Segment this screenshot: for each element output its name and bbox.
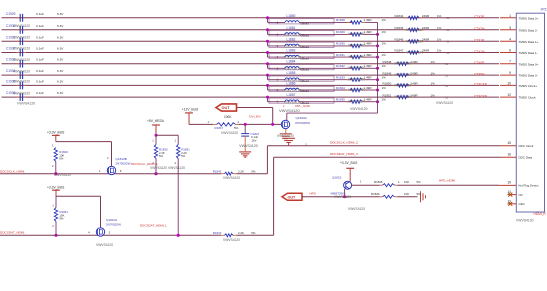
resistor R1831 2.2K 5% (SDA pullup)	[175, 139, 191, 236]
svg-text:51: 51	[445, 84, 448, 88]
svg-text:DDC Clock: DDC Clock	[519, 144, 534, 148]
svg-text:1: 1	[398, 180, 400, 184]
capacitor C1933 0.1uF 6.3V	[6, 58, 64, 68]
svg-text:1%: 1%	[431, 93, 436, 97]
svg-text:Q1823: Q1823	[332, 175, 342, 179]
svg-text:1.49R: 1.49R	[364, 42, 373, 46]
resistor R1632 1.49R 1%	[336, 64, 386, 70]
node rail junction row 3	[376, 44, 379, 47]
node junction row 1	[266, 16, 269, 19]
resistor R1845 10K 5% (HPD)	[374, 180, 421, 187]
wire TMDS row 3 net CTX1P	[2, 40, 500, 42]
capacitor C1935 0.1uF 6.3V	[6, 79, 64, 89]
power +3.3V_BUS (Q1810B)	[52, 134, 60, 136]
wire TMDS row 2 net CTX2N	[2, 29, 500, 31]
svg-text:NC: NC	[519, 193, 524, 197]
svg-text:L1884: L1884	[287, 60, 296, 64]
svg-text:51: 51	[447, 51, 450, 55]
wire Q1823 base from HPD row B	[344, 189, 346, 197]
svg-text:15: 15	[507, 141, 511, 145]
wire TMDS row 7 net CTXCKP	[2, 84, 500, 86]
svg-text:Q1820A: Q1820A	[296, 116, 308, 120]
svg-text:VWVS4120: VWVS4120	[223, 176, 240, 180]
svg-text:1.49R: 1.49R	[364, 98, 373, 102]
svg-text:R1845: R1845	[395, 26, 404, 30]
svg-text:1%: 1%	[437, 49, 442, 53]
svg-text:R1843: R1843	[213, 169, 222, 173]
svg-text:4: 4	[509, 37, 511, 41]
wire DDCSDAT_HDMI row	[0, 234, 221, 236]
svg-text:TMDS Data 2+: TMDS Data 2+	[519, 16, 539, 20]
svg-text:51: 51	[445, 62, 448, 66]
node rail junction row 2	[376, 33, 379, 36]
wire +3.3V to R1841 and Q1810A drain	[55, 190, 57, 196]
svg-text:DDC Data: DDC Data	[519, 156, 533, 160]
wire pin stub 15	[500, 145, 516, 147]
pin 14 NC crossed	[507, 190, 516, 196]
svg-text:+3.3V_BUS: +3.3V_BUS	[47, 185, 65, 189]
svg-text:5%: 5%	[181, 154, 186, 158]
svg-text:HDMI_R: HDMI_R	[534, 212, 547, 216]
node rail junction row 7	[376, 89, 379, 92]
svg-text:1.49R: 1.49R	[364, 86, 373, 90]
svg-text:2N7002DW: 2N7002DW	[295, 121, 310, 125]
svg-text:CTX0P: CTX0P	[474, 61, 484, 65]
wire pin stub 9	[500, 74, 516, 76]
svg-text:1%: 1%	[382, 86, 387, 90]
svg-text:R1842: R1842	[213, 231, 222, 235]
svg-text:0.1uF: 0.1uF	[36, 58, 44, 62]
svg-text:R1847: R1847	[395, 49, 404, 53]
node junction base	[343, 195, 346, 198]
svg-text:CTXCKN: CTXCKN	[474, 94, 488, 98]
svg-text:1%: 1%	[437, 14, 442, 18]
svg-text:0.1uF: 0.1uF	[36, 35, 44, 39]
svg-text:10K: 10K	[404, 192, 409, 196]
wire DPL_GND horizontal to Q1820A drain	[287, 112, 378, 114]
svg-text:L1886: L1886	[287, 81, 296, 85]
svg-text:6.3V: 6.3V	[57, 24, 64, 28]
svg-text:CTX1P: CTX1P	[474, 39, 484, 43]
svg-text:2: 2	[175, 161, 177, 165]
svg-text:R1848: R1848	[383, 60, 392, 64]
resistor R1844 249R 1%	[395, 14, 450, 20]
svg-text:uBead: uBead	[301, 79, 310, 83]
svg-text:Q1810B: Q1810B	[116, 157, 127, 161]
power +3.3V_BUS (Q1810A)	[52, 189, 60, 191]
svg-text:VWVS4120: VWVS4120	[394, 73, 411, 77]
wire stub down to bead row 1	[267, 18, 269, 23]
wire TMDS row 4 net CTX1N	[2, 52, 500, 54]
ferrite bead L1886 uBead	[268, 81, 353, 93]
ground on DDC SCL (shield)	[282, 138, 295, 146]
svg-text:2.2K: 2.2K	[238, 231, 244, 235]
wire pin stub 4	[500, 40, 516, 42]
svg-text:1: 1	[99, 169, 101, 173]
svg-text:1%: 1%	[382, 98, 387, 102]
node rail junction row 8	[376, 100, 379, 103]
svg-text:uBead: uBead	[301, 22, 310, 26]
svg-text:uBead: uBead	[301, 34, 310, 38]
svg-text:1: 1	[208, 120, 210, 124]
svg-text:1: 1	[360, 180, 362, 184]
net flag OUT (HPD from source)	[282, 193, 302, 200]
resistor R1830 2.2K 5% (SCL pullup)	[152, 135, 168, 174]
svg-text:R1846: R1846	[371, 192, 380, 196]
svg-text:249R: 249R	[422, 26, 430, 30]
svg-text:TMDS Clock-: TMDS Clock-	[519, 96, 537, 100]
svg-text:HPD: HPD	[310, 192, 317, 196]
svg-text:Q1810A: Q1810A	[106, 218, 118, 222]
ground rotated (HPD row B)	[421, 191, 426, 202]
svg-text:249R: 249R	[422, 14, 430, 18]
svg-text:HPD_HDMI: HPD_HDMI	[439, 179, 455, 183]
resistor R1634 1.49R 1%	[336, 86, 386, 92]
wire pin stub 16	[500, 156, 516, 158]
svg-text:10K: 10K	[404, 180, 409, 184]
svg-text:10: 10	[507, 81, 511, 85]
resistor R1817 100K 5%	[208, 115, 240, 135]
svg-text:2: 2	[107, 156, 109, 160]
node junction R1831 / SDA	[177, 234, 180, 237]
ferrite bead L1887 uBead	[268, 93, 353, 105]
svg-text:DDCSCLK_HDMI_C: DDCSCLK_HDMI_C	[330, 140, 359, 144]
ferrite bead L1885 uBead	[268, 71, 353, 83]
svg-text:CTXCKP: CTXCKP	[474, 83, 487, 87]
capacitor C1827 0.1uF 16V	[241, 124, 259, 151]
wire Q1820A source to ground	[285, 129, 287, 134]
svg-text:6.3V: 6.3V	[57, 69, 64, 73]
capacitor C1931 0.1uF 6.3V	[6, 35, 64, 45]
svg-text:249R: 249R	[411, 60, 419, 64]
resistor R1840 10K 5%	[52, 143, 68, 173]
svg-text:VWVS4120: VWVS4120	[13, 91, 30, 95]
svg-text:VWVS4120: VWVS4120	[394, 62, 411, 66]
svg-text:VWVS4120: VWVS4120	[239, 144, 258, 148]
svg-text:R1851: R1851	[383, 93, 392, 97]
svg-text:0.1uF: 0.1uF	[36, 91, 44, 95]
svg-text:JP21: JP21	[541, 7, 547, 11]
node junction R1840 / SCL	[54, 172, 57, 175]
svg-text:+12V_BUS: +12V_BUS	[182, 108, 199, 112]
transistor Q1810A 2N7002DW	[88, 218, 121, 236]
svg-text:51: 51	[447, 28, 450, 32]
svg-text:6.3V: 6.3V	[57, 35, 64, 39]
resistor R1635 1.49R 1%	[336, 98, 386, 104]
wire stub down to bead row 5	[267, 64, 269, 69]
svg-text:6: 6	[509, 49, 511, 53]
wire HPD row B	[302, 196, 380, 198]
svg-text:VWVS4120: VWVS4120	[13, 47, 30, 51]
svg-text:+3.3V_BUS: +3.3V_BUS	[47, 131, 65, 135]
svg-text:VWVS4120: VWVS4120	[17, 101, 35, 105]
wire termination rail DPL_GND	[377, 22, 379, 113]
svg-text:L1887: L1887	[287, 93, 296, 97]
wire pin stub 12	[500, 96, 516, 98]
svg-text:DDCSDAT_HDMI_L: DDCSDAT_HDMI_L	[140, 223, 167, 227]
svg-text:OUT: OUT	[288, 195, 297, 199]
power +3.3V_BUS (Q1823)	[346, 167, 354, 169]
svg-text:1%: 1%	[431, 82, 436, 86]
svg-text:1.49R: 1.49R	[364, 30, 373, 34]
svg-text:DDCSDAT_HDMI_C: DDCSDAT_HDMI_C	[330, 152, 359, 156]
wire pin stub 1	[500, 17, 516, 19]
svg-text:5%: 5%	[59, 157, 64, 161]
svg-text:DVI_EN: DVI_EN	[249, 114, 260, 118]
transistor Q1810B 2N7002DW	[99, 156, 131, 175]
svg-text:VWVS4120: VWVS4120	[284, 89, 301, 93]
svg-text:R1845: R1845	[374, 180, 383, 184]
resistor R1843 2.2K 5% (SCL series)	[213, 169, 256, 175]
svg-text:51: 51	[445, 96, 448, 100]
ground below Q1820A	[280, 133, 292, 135]
node junction row 6	[266, 74, 269, 77]
svg-text:R1629: R1629	[336, 30, 345, 34]
svg-text:0.1uF: 0.1uF	[36, 12, 44, 16]
wire pin stub 10	[500, 84, 516, 86]
svg-text:R1634: R1634	[336, 86, 345, 90]
resistor R1849 249R 1%	[383, 71, 449, 77]
svg-text:VWVS4120: VWVS4120	[13, 69, 30, 73]
resistor R1631 1.49R 1%	[336, 53, 386, 59]
svg-text:uBead: uBead	[301, 56, 310, 60]
svg-text:7: 7	[509, 60, 511, 64]
svg-text:L1882: L1882	[287, 37, 296, 41]
svg-text:VWVS4120: VWVS4120	[13, 80, 30, 84]
svg-text:R1844: R1844	[395, 14, 404, 18]
capacitor C1929 0.1uF 6.3V	[6, 12, 64, 22]
svg-text:6.3V: 6.3V	[57, 79, 64, 83]
svg-text:R1630: R1630	[336, 42, 345, 46]
wire DDCSCLK_HDMI row	[0, 173, 221, 175]
power +5V_HESA	[152, 124, 160, 126]
svg-text:VWVS4120: VWVS4120	[334, 195, 351, 199]
wire stub down to bead row 6	[267, 75, 269, 80]
node junction DVI_EN / OUT	[271, 123, 274, 126]
svg-text:1%: 1%	[437, 38, 442, 42]
ferrite bead L1882 uBead	[268, 37, 353, 49]
wire TMDS row 6 net CTX0N	[2, 74, 500, 76]
resistor R1845 249R 1%	[395, 26, 450, 32]
connector JP21 HDMI	[516, 7, 547, 212]
svg-text:5%: 5%	[234, 126, 239, 130]
wire stub down to bead row 2	[267, 30, 269, 35]
svg-text:R1849: R1849	[383, 71, 392, 75]
node rail junction row 6	[376, 78, 379, 81]
power +12V_BUS	[185, 112, 193, 114]
svg-text:1: 1	[152, 139, 154, 143]
svg-text:2N7002DW: 2N7002DW	[116, 161, 131, 165]
svg-text:249R: 249R	[422, 49, 430, 53]
svg-text:VWVS4120: VWVS4120	[13, 58, 30, 62]
svg-text:uBead: uBead	[301, 45, 310, 49]
net flag OUT (DVI_EN gate)	[237, 107, 273, 109]
svg-text:L1885: L1885	[287, 71, 296, 75]
svg-text:9: 9	[509, 71, 511, 75]
svg-text:2.2K: 2.2K	[238, 169, 244, 173]
ferrite bead L1881 uBead	[268, 26, 353, 38]
svg-text:1%: 1%	[382, 42, 387, 46]
svg-text:1: 1	[509, 14, 511, 18]
wire +3.3V to Q1823	[349, 168, 351, 181]
svg-text:0.1uF: 0.1uF	[36, 79, 44, 83]
svg-text:4: 4	[88, 231, 90, 235]
svg-text:R1635: R1635	[336, 98, 345, 102]
svg-text:5%: 5%	[251, 231, 256, 235]
resistor R1848 249R 1%	[383, 60, 449, 66]
capacitor C1936 0.1uF 6.3V	[6, 91, 64, 101]
svg-text:VWVS4120: VWVS4120	[13, 36, 30, 40]
svg-text:2: 2	[238, 120, 240, 124]
node junction row 2	[266, 28, 269, 31]
svg-text:CTX1N: CTX1N	[474, 50, 485, 54]
svg-text:5%: 5%	[60, 217, 65, 221]
wire TMDS row 5 net CTX0P	[2, 63, 500, 65]
wire +3.3V to R1840 and Q1810B drain	[55, 135, 57, 141]
svg-text:VWVS4120: VWVS4120	[279, 108, 300, 113]
svg-text:2N7002DW: 2N7002DW	[106, 222, 121, 226]
node junction row 5	[266, 62, 269, 65]
svg-text:VWVS4120: VWVS4120	[277, 134, 294, 138]
svg-text:CTX2N: CTX2N	[474, 27, 485, 31]
svg-text:1.49R: 1.49R	[364, 64, 373, 68]
svg-text:51: 51	[447, 40, 450, 44]
wire stub down to bead row 8	[267, 97, 269, 102]
svg-text:249R: 249R	[411, 82, 419, 86]
svg-text:VWVS4120: VWVS4120	[96, 243, 113, 247]
svg-text:249R: 249R	[411, 71, 419, 75]
svg-text:1%: 1%	[382, 76, 387, 80]
svg-text:1%: 1%	[382, 30, 387, 34]
svg-text:TMDS Data 0+: TMDS Data 0+	[519, 62, 539, 66]
svg-text:100K: 100K	[224, 115, 232, 119]
resistor R1851 249R 1%	[383, 93, 449, 99]
node junction R1841 / SDA	[54, 234, 57, 237]
svg-text:1.49R: 1.49R	[364, 76, 373, 80]
node junction row 3	[266, 40, 269, 43]
node rail junction row 4	[376, 56, 379, 59]
svg-text:Hot Plug Detect: Hot Plug Detect	[518, 184, 538, 188]
svg-text:1: 1	[175, 139, 177, 143]
svg-text:CTX2P: CTX2P	[474, 15, 484, 19]
svg-text:DDCSCLK_HDMI: DDCSCLK_HDMI	[0, 169, 25, 173]
svg-text:5%: 5%	[251, 169, 256, 173]
wire TMDS row 8 net CTXCKN	[2, 96, 500, 98]
svg-text:249R: 249R	[411, 93, 419, 97]
svg-text:12: 12	[507, 93, 511, 97]
svg-text:1%: 1%	[431, 71, 436, 75]
resistor R1842 2.2K 5% (SDA series)	[213, 231, 256, 237]
svg-text:16: 16	[507, 153, 511, 157]
svg-text:TMDS Data 1+: TMDS Data 1+	[519, 40, 539, 44]
wire SDA to connector	[237, 234, 274, 236]
svg-text:VWVS4120: VWVS4120	[223, 238, 240, 242]
svg-text:VWVS4120: VWVS4120	[406, 28, 423, 32]
resistor R1847 249R 1%	[395, 49, 450, 55]
svg-text:51: 51	[445, 74, 448, 78]
wire HPD row to connector	[352, 184, 380, 186]
svg-text:0.1uF: 0.1uF	[36, 69, 44, 73]
svg-text:R1850: R1850	[383, 82, 392, 86]
wire stub down to bead row 4	[267, 53, 269, 58]
svg-text:VWVS4120: VWVS4120	[13, 24, 30, 28]
svg-text:19: 19	[507, 181, 511, 185]
svg-text:VWVS4120 VWVS4120: VWVS4120 VWVS4120	[150, 166, 185, 170]
svg-text:2: 2	[52, 164, 54, 168]
svg-text:5%: 5%	[417, 180, 422, 184]
svg-text:VWVS4120: VWVS4120	[516, 219, 534, 223]
svg-text:1.49R: 1.49R	[364, 53, 373, 57]
svg-text:3: 3	[509, 26, 511, 30]
capacitor C1932 0.1uF 6.3V	[6, 47, 64, 57]
svg-text:6.3V: 6.3V	[57, 47, 64, 51]
svg-text:1: 1	[52, 203, 54, 207]
svg-text:VWVS4120: VWVS4120	[348, 207, 365, 211]
resistor R1629 1.49R 1%	[336, 30, 386, 36]
svg-text:CTX0N: CTX0N	[474, 72, 485, 76]
svg-text:51: 51	[447, 16, 450, 20]
node junction row 8	[266, 96, 269, 99]
svg-text:1: 1	[52, 143, 54, 147]
node junction row 4	[266, 51, 269, 54]
wire pin stub 7	[500, 63, 516, 65]
node junction +5V	[155, 134, 158, 137]
node junction row 7	[266, 84, 269, 87]
transistor Q1820A 2N7002DW	[281, 116, 310, 128]
svg-text:1%: 1%	[437, 26, 442, 30]
svg-text:C1929: C1929	[6, 12, 16, 16]
transistor Q1823 MMBT3904	[331, 175, 363, 195]
node junction DVI_EN / C1827	[244, 123, 247, 126]
svg-text:2: 2	[52, 224, 54, 228]
capacitor C1934 0.1uF 6.3V	[6, 69, 64, 79]
wire stub down to bead row 7	[267, 85, 269, 90]
ferrite bead L1883 uBead	[268, 49, 353, 61]
svg-text:R1846: R1846	[395, 38, 404, 42]
wire stub down to bead row 3	[267, 41, 269, 46]
svg-text:+3.3V_BUS: +3.3V_BUS	[340, 161, 358, 165]
svg-text:0.1uF: 0.1uF	[36, 47, 44, 51]
node junction R1830 / SCL	[154, 172, 157, 175]
wire +12V to R1817	[188, 113, 190, 125]
svg-text:VWVS4120: VWVS4120	[406, 51, 423, 55]
svg-text:uBead: uBead	[301, 89, 310, 93]
svg-text:6.3V: 6.3V	[57, 91, 64, 95]
svg-text:5%: 5%	[159, 154, 164, 158]
svg-text:6.3V: 6.3V	[57, 12, 64, 16]
svg-text:R1632: R1632	[336, 64, 345, 68]
svg-text:VWVS4120: VWVS4120	[394, 83, 411, 87]
svg-text:1%: 1%	[382, 18, 387, 22]
svg-text:0.1uF: 0.1uF	[36, 24, 44, 28]
resistor R1846 10K 5% (HPD pulldown)	[371, 192, 421, 198]
svg-text:VWVS4120: VWVS4120	[394, 95, 411, 99]
svg-text:DDCSDAT_HDMI: DDCSDAT_HDMI	[0, 231, 24, 235]
svg-text:TMDS Data 0-: TMDS Data 0-	[519, 74, 538, 78]
svg-text:R1628: R1628	[336, 18, 345, 22]
wire TMDS row 1 net CTX2P	[2, 17, 500, 19]
svg-text:3: 3	[109, 231, 111, 235]
svg-text:VWVS4120: VWVS4120	[406, 39, 423, 43]
svg-text:6.3V: 6.3V	[57, 58, 64, 62]
svg-text:VWVS4120: VWVS4120	[221, 131, 238, 135]
resistor R1628 1.49R 1%	[336, 18, 386, 24]
svg-text:R1633: R1633	[336, 76, 345, 80]
capacitor C1930 0.1uF 6.3V	[6, 24, 64, 34]
svg-text:TMDS Clock+: TMDS Clock+	[519, 84, 538, 88]
wire pin stub 19	[499, 184, 516, 186]
svg-text:6: 6	[120, 169, 122, 173]
